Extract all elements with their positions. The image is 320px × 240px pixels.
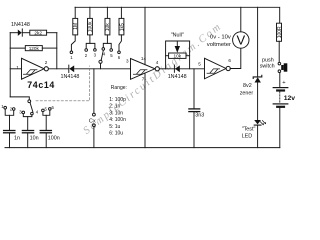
S1a contacts (1, 104, 54, 115)
svg-text:0v - 10v: 0v - 10v (210, 34, 231, 40)
svg-text:5: 5 (198, 62, 201, 67)
capacitor C1 1n (4, 109, 20, 148)
svg-text:zener: zener (240, 91, 254, 97)
diode D3 1N4148 (168, 65, 187, 80)
battery 12v (273, 73, 295, 148)
svg-text:1n: 1n (14, 135, 20, 141)
svg-text:V: V (236, 33, 245, 48)
capacitor 3n3 (189, 69, 204, 148)
capacitor C2 10n (22, 114, 38, 148)
svg-text:7: 7 (142, 76, 145, 81)
LED Test (242, 120, 266, 148)
wire IC1 output (48, 68, 68, 70)
svg-text:10k: 10k (105, 23, 111, 32)
wire IC1 input to S1a pivot (10, 97, 29, 100)
svg-text:100n: 100n (48, 135, 60, 141)
S1b bracket contacts 4-5 (103, 43, 111, 48)
zener diode 8v2 (240, 7, 262, 120)
svg-text:6: 10u: 6: 10u (109, 131, 123, 137)
svg-text:LED: LED (242, 133, 253, 139)
trimmer Null 10k network (166, 32, 190, 68)
wire left feedback vertical (9, 33, 11, 97)
svg-text:6: 6 (228, 58, 231, 63)
svg-text:10n: 10n (30, 135, 39, 141)
diode D1 1N4148 top feedback (10, 22, 30, 36)
svg-text:3: 10n: 3: 10n (109, 110, 123, 116)
svg-text:3: 3 (126, 58, 129, 63)
svg-text:push: push (262, 57, 274, 63)
resistor 120k (10, 46, 57, 51)
svg-text:14: 14 (141, 56, 147, 61)
svg-text:3n3: 3n3 (195, 113, 204, 119)
svg-text:12v: 12v (284, 95, 296, 102)
svg-text:8v2: 8v2 (243, 83, 252, 89)
svg-text:"Null": "Null" (171, 32, 184, 38)
svg-text:1N4148: 1N4148 (11, 22, 30, 28)
svg-text:4: 100n: 4: 100n (109, 117, 126, 123)
svg-text:"Test": "Test" (242, 127, 256, 133)
svg-text:4: 4 (156, 60, 159, 65)
svg-text:Range:: Range: (111, 85, 127, 91)
wire top supply rail (75, 7, 280, 23)
wire IC3 output to voltmeter (230, 48, 241, 68)
svg-text:74c14: 74c14 (27, 80, 55, 90)
svg-text:10k: 10k (174, 54, 182, 59)
Cx test terminals (89, 69, 97, 148)
push switch (260, 57, 288, 72)
svg-text:5: 1u: 5: 1u (109, 124, 120, 130)
svg-text:1N4148: 1N4148 (168, 74, 187, 80)
timing resistor 10k (105, 7, 111, 43)
wire main signal IC1 out to IC2 in (73, 68, 131, 70)
timing resistor 100k (88, 7, 94, 43)
svg-text:+: + (282, 80, 286, 86)
inverter gate IC1c pins 5-6 (198, 58, 231, 79)
gang link dashed S1a-S1b (36, 66, 90, 101)
Range text block (109, 85, 127, 137)
wire right feedback vertical (56, 33, 58, 69)
svg-text:1: 100p: 1: 100p (109, 97, 126, 103)
wire IC2 output (159, 68, 165, 70)
svg-text:2: 2 (45, 60, 48, 65)
svg-text:Cx: Cx (89, 119, 96, 125)
voltmeter (207, 7, 249, 48)
inverter gate IC1a 74c14 (10, 58, 55, 90)
svg-text:voltmeter: voltmeter (207, 42, 231, 48)
resistor 100R (277, 23, 284, 62)
S1b bracket contacts 2-3 (86, 43, 95, 48)
svg-text:100k: 100k (88, 21, 94, 32)
wire bottom ground rail (5, 147, 280, 149)
svg-text:1N4148: 1N4148 (61, 74, 80, 80)
svg-text:120k: 120k (29, 46, 40, 51)
capacitor C3 100n (40, 110, 60, 147)
svg-text:1: 1 (16, 65, 19, 70)
svg-text:2k2: 2k2 (34, 31, 42, 36)
svg-text:2: 1n: 2: 1n (109, 104, 120, 110)
svg-text:1k5: 1k5 (119, 23, 125, 31)
diode D2 1N4148 (61, 65, 80, 80)
wire main IC2 out to IC3 in (166, 68, 205, 70)
svg-text:switch: switch (260, 64, 275, 70)
timing resistor 1M (71, 7, 79, 51)
svg-text:100R: 100R (277, 26, 283, 38)
S1b pivot and wiper (99, 50, 103, 68)
svg-text:1M: 1M (73, 23, 79, 30)
resistor 2k2 (30, 30, 57, 35)
timing resistor 1k5 (119, 7, 125, 51)
rotary switch S1a pivot and wiper (28, 100, 33, 112)
inverter gate IC1b pins 3-4 (126, 7, 159, 147)
rotary switch S1b contacts (70, 48, 121, 60)
